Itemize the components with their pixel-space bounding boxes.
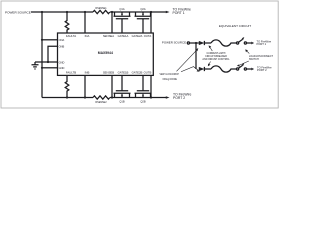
node top rail x112 [111, 11, 113, 13]
svg-text:PORT 1: PORT 1 [173, 11, 185, 15]
wire bottom rail [42, 97, 151, 99]
annotation arrow to S1 [245, 49, 249, 53]
svg-text:GND: GND [59, 66, 65, 70]
terminal circle power source [187, 42, 189, 44]
node equiv junction [195, 42, 197, 44]
wire OUTA [150, 12, 152, 33]
wire stub ONB and bus2 [48, 46, 58, 62]
svg-text:ONB: ONB [59, 45, 65, 49]
frame border [1, 1, 278, 108]
svg-text:PORT 2: PORT 2 [173, 96, 185, 100]
wire stub GND2 [42, 67, 58, 69]
node left bus y39.8 [41, 39, 43, 41]
svg-text:INA: INA [85, 34, 90, 38]
svg-text:MAX5944: MAX5944 [98, 51, 113, 55]
wire SENSEB [111, 75, 113, 97]
resistor R1 (FAULTA pullup) [65, 12, 69, 33]
svg-text:GATE1B: GATE1B [118, 71, 129, 75]
svg-text:OUTB: OUTB [144, 71, 152, 75]
svg-text:GATE1A: GATE1A [118, 34, 129, 38]
wire top rail [31, 11, 151, 13]
svg-text:GATE2A: GATE2A [132, 34, 143, 38]
wire / arrow to port 1 [151, 11, 166, 13]
svg-text:POWER SOURCE: POWER SOURCE [162, 41, 186, 45]
wire INA [84, 12, 86, 33]
wire left bus [41, 12, 43, 98]
svg-text:GATE2B: GATE2B [132, 71, 143, 75]
svg-text:SWITCH: SWITCH [249, 58, 259, 61]
transistor Q2A [135, 7, 152, 33]
annotation arrow to D2 [181, 67, 200, 72]
annotation arrow to CL1 [209, 45, 213, 51]
svg-text:PORT 2: PORT 2 [257, 68, 267, 72]
node bottom rail x85 [84, 96, 86, 98]
node top rail x85 [84, 11, 86, 13]
annotation arrow to S2 [237, 61, 249, 67]
svg-text:OUTA: OUTA [144, 34, 152, 38]
node bottom rail x112 [111, 96, 113, 98]
node bottom rail x151 [150, 96, 152, 98]
transistor Q1A [114, 7, 131, 33]
wire INB [84, 75, 86, 97]
node left bus y67.8 [41, 67, 43, 69]
current limiter CL1 [211, 40, 237, 46]
svg-text:INB: INB [85, 71, 90, 75]
svg-text:ORing DIODE: ORing DIODE [162, 79, 177, 81]
svg-text:PORT 1: PORT 1 [257, 42, 267, 46]
node bottom rail x67 [66, 96, 68, 98]
annotation arrow to D1 [177, 48, 199, 71]
label VERY-LOW-DROP ORing DIODE [160, 74, 180, 81]
node top rail x42 [41, 11, 43, 13]
svg-text:FAULTB: FAULTB [66, 71, 76, 75]
transistor Q1B [114, 75, 131, 103]
wire GND line [35, 61, 58, 63]
resistor R2 (FAULTB pullup) [65, 75, 69, 97]
transistor Q2B [135, 75, 152, 103]
resistor RSENSE1 [93, 7, 110, 14]
label LOAD-DISCONNECT SWITCH [249, 55, 274, 61]
wire to junction [190, 42, 199, 44]
node top rail x151 [150, 11, 152, 13]
node bus2 y62 [47, 61, 49, 63]
wire equiv vertical [195, 43, 197, 69]
switch S2 [237, 63, 255, 70]
svg-text:Q2A: Q2A [140, 7, 145, 11]
diode D1 [199, 41, 211, 45]
node top rail x67 [66, 11, 68, 13]
op-amp U1 MAX5944 (controller IC) [58, 33, 154, 75]
diode D2 [199, 67, 211, 71]
svg-text:Q1B: Q1B [119, 100, 124, 104]
wire stub ONA [42, 39, 58, 41]
svg-text:SENSEB: SENSEB [103, 71, 114, 75]
wire SENSEA [111, 12, 113, 33]
switch S1 [237, 37, 255, 44]
wire OUTB [150, 75, 152, 97]
wire / arrow to port 2 [151, 97, 166, 99]
svg-text:RSENSE2: RSENSE2 [95, 101, 107, 104]
svg-text:FAULTA: FAULTA [66, 34, 76, 38]
label CURRENT-LIMIT block [202, 52, 230, 61]
resistor RSENSE2 [93, 96, 110, 104]
ground [32, 62, 39, 69]
annotation arrow to CL2 [208, 62, 211, 67]
current limiter CL2 [211, 66, 237, 72]
svg-text:Q2B: Q2B [140, 100, 145, 104]
svg-text:SENSEA: SENSEA [103, 34, 114, 38]
svg-text:EQUIVALENT CIRCUIT: EQUIVALENT CIRCUIT [219, 24, 251, 28]
svg-text:ONA: ONA [59, 38, 65, 42]
svg-text:GND: GND [59, 60, 65, 64]
svg-text:POWER SOURCE: POWER SOURCE [5, 10, 31, 14]
svg-text:VERY-LOW-DROP: VERY-LOW-DROP [160, 74, 180, 76]
svg-text:RSENSE1: RSENSE1 [95, 7, 107, 10]
svg-text:AND INRUSH CONTROL: AND INRUSH CONTROL [202, 58, 230, 61]
svg-text:Q1A: Q1A [119, 7, 124, 11]
